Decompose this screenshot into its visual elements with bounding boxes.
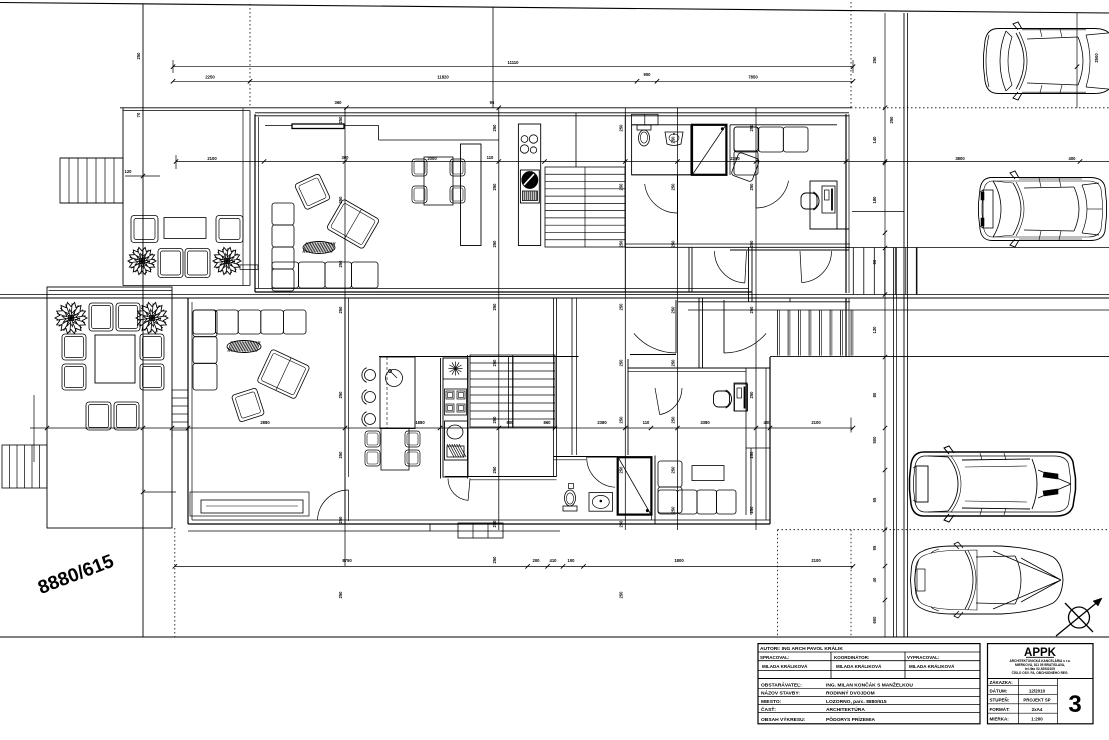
property line vertical x=143 [142, 4, 144, 637]
patio chair bottom 2 [114, 402, 139, 430]
site stairs treads [2, 445, 47, 488]
lower center wall x=627 [627, 359, 629, 455]
study top wall y=368 [628, 367, 770, 369]
upper plan top niche walls [265, 125, 379, 127]
site boundary top line (slanted) [0, 3, 1109, 14]
curb verticals x=893 [893, 248, 895, 638]
svg-text:1880: 1880 [415, 420, 425, 425]
upper hall door 2 [756, 181, 789, 208]
upper living armchair rotated 2 [326, 199, 379, 249]
upper wc shaft [632, 114, 658, 125]
patio dotted edge continuation [174, 528, 176, 637]
sidewalk line right [893, 309, 1109, 311]
left dim vertical x=34 [33, 395, 35, 462]
dimension chain y=163 upper plan [176, 161, 1109, 163]
dotted parking line y=530 [778, 529, 1109, 531]
svg-text:8750: 8750 [342, 558, 352, 563]
kitchen bottom wall [445, 476, 557, 478]
svg-text:140: 140 [872, 136, 877, 144]
svg-text:OBSAH VÝKRESU:: OBSAH VÝKRESU: [761, 716, 806, 723]
parking edge line y=211.5 [852, 211, 904, 213]
dimension line overall width y=67 [173, 66, 853, 68]
stairwell left wall lower [467, 355, 469, 479]
svg-text:410: 410 [550, 558, 558, 563]
svg-text:250: 250 [872, 56, 877, 64]
svg-text:600: 600 [872, 616, 877, 624]
svg-text:250: 250 [492, 466, 497, 474]
dim tick on property line y=492 [143, 491, 176, 493]
svg-text:MILADA KRÁLIKOVÁ: MILADA KRÁLIKOVÁ [762, 663, 808, 669]
svg-text:250: 250 [338, 260, 343, 268]
svg-text:MILADA KRÁLIKOVÁ: MILADA KRÁLIKOVÁ [909, 663, 955, 669]
svg-text:180: 180 [872, 196, 877, 204]
svg-text:250: 250 [671, 136, 676, 144]
lower plan outer walls [187, 298, 189, 524]
svg-text:MIERKA:: MIERKA: [990, 717, 1010, 722]
bedroom right wall inner [750, 448, 752, 515]
upper porch lines [678, 301, 850, 303]
svg-text:250: 250 [671, 359, 676, 367]
svg-text:2500: 2500 [1094, 53, 1099, 63]
dotted grid vertical x=851 top [850, 2, 852, 108]
patio chair bottom 1 [86, 402, 111, 430]
svg-text:250: 250 [749, 451, 754, 459]
dimension line segments y=81 [173, 80, 853, 82]
svg-text:900: 900 [644, 72, 652, 77]
svg-text:400: 400 [1069, 156, 1077, 161]
svg-text:STUPEŇ:: STUPEŇ: [990, 696, 1010, 703]
svg-text:360: 360 [335, 100, 343, 105]
svg-text:PROJEKT SP: PROJEKT SP [1023, 698, 1050, 703]
svg-text:250: 250 [492, 183, 497, 191]
svg-text:2380: 2380 [730, 156, 740, 161]
svg-text:40: 40 [872, 577, 877, 582]
road edge double vertical x=904 [903, 13, 905, 637]
terrace armchair 2 [216, 216, 243, 243]
svg-text:120: 120 [872, 326, 877, 334]
svg-text:70: 70 [136, 112, 141, 117]
svg-text:80: 80 [872, 392, 877, 397]
dimension chain y=428 lower plan [30, 427, 853, 429]
patio chair left 1 [62, 334, 86, 360]
svg-text:250: 250 [618, 591, 623, 599]
grid dotted vertical x=250 top [249, 4, 251, 108]
svg-text:12/2010: 12/2010 [1029, 689, 1046, 694]
grid vertical x=498.8 [498, 108, 500, 530]
dimension chain vertical x=885 [884, 13, 886, 637]
grid vertical x=345 [344, 108, 346, 566]
party wall upper plan [748, 247, 750, 302]
patio chair left 2 [62, 364, 86, 390]
upper hall door 1 [645, 184, 678, 213]
svg-text:DÁTUM:: DÁTUM: [990, 688, 1008, 694]
svg-text:250: 250 [338, 391, 343, 399]
car 2 [979, 171, 1107, 247]
svg-text:110: 110 [643, 420, 650, 425]
svg-text:2380: 2380 [597, 420, 607, 425]
terrace seat 2 [185, 249, 210, 278]
svg-text:250: 250 [492, 240, 497, 248]
lower desk [735, 384, 748, 411]
upper stairs treads [545, 167, 625, 247]
terrace seat 1 [158, 249, 183, 278]
party wall lower plan [698, 298, 700, 368]
upper dining table [424, 157, 453, 205]
long double site line y=295-298 [0, 294, 1109, 296]
upper desk set [810, 181, 837, 229]
lower island sink [386, 370, 403, 387]
svg-text:7850: 7850 [748, 75, 758, 80]
patio table [95, 335, 135, 383]
svg-text:250: 250 [671, 183, 676, 191]
upper kitchen island [461, 144, 482, 246]
svg-text:1:200: 1:200 [1031, 717, 1043, 722]
svg-text:250: 250 [671, 506, 676, 514]
car 4 sport [911, 542, 1064, 618]
grid vertical x=625 [624, 108, 626, 530]
lower dining set [381, 428, 409, 470]
patio seat top 2 [116, 303, 140, 331]
svg-text:250: 250 [618, 359, 623, 367]
terrace tree 1 [128, 247, 156, 274]
terrace inner edge x=243 [242, 108, 244, 286]
svg-text:250: 250 [492, 124, 497, 132]
upper living armchair rotated 1 [294, 173, 330, 210]
center hall door [660, 388, 682, 415]
exterior steps band A [846, 247, 1109, 249]
svg-text:300: 300 [342, 155, 350, 160]
car 1 body [984, 29, 1109, 94]
dotted grid vertical x=851 bottom [850, 530, 852, 637]
svg-text:200: 200 [533, 558, 541, 563]
patio chair right 2 [140, 364, 164, 390]
svg-text:RODINNÝ DVOJDOM: RODINNÝ DVOJDOM [826, 690, 875, 697]
svg-text:ARCHITEKTÚRA: ARCHITEKTÚRA [826, 706, 865, 713]
lower living armchairs rotated [257, 349, 310, 399]
north arrow symbol [1069, 607, 1090, 628]
svg-text:250: 250 [492, 416, 497, 424]
svg-text:250: 250 [749, 183, 754, 191]
dotted site line y=107 parking [851, 107, 1109, 109]
patio outline [47, 287, 172, 528]
title table row lines [758, 687, 980, 689]
upper living rug [303, 242, 335, 254]
svg-text:95: 95 [872, 545, 877, 550]
lower desk set [734, 383, 747, 411]
svg-text:250: 250 [671, 466, 676, 474]
svg-text:LOZORNO, parc. 8880/615: LOZORNO, parc. 8880/615 [826, 699, 887, 705]
upper plan partition x=625 lower [624, 244, 626, 292]
upper stairwell wall x=576 [575, 113, 577, 167]
terrace mid dim tick [125, 175, 160, 177]
bathroom door [587, 457, 615, 487]
upper interior wall mid [677, 175, 679, 244]
svg-text:FORMÁT:: FORMÁT: [990, 706, 1011, 712]
upper shower [692, 125, 726, 175]
svg-text:250: 250 [618, 124, 623, 132]
terrace coffee table [164, 218, 206, 239]
grid vertical x=677.5 [677, 108, 679, 530]
svg-text:250: 250 [492, 556, 497, 564]
lower entry door arc 2 [724, 333, 766, 353]
svg-text:MILADA KRÁLIKOVÁ: MILADA KRÁLIKOVÁ [836, 663, 882, 669]
svg-text:250: 250 [618, 303, 623, 311]
svg-text:250: 250 [338, 591, 343, 599]
svg-text:250: 250 [338, 196, 343, 204]
lower hall wall x=555 [553, 298, 555, 477]
svg-text:VYPRACOVAL:: VYPRACOVAL: [907, 655, 940, 660]
svg-text:11820: 11820 [437, 75, 449, 80]
upper entry door arc 2 [802, 251, 832, 283]
svg-text:3800: 3800 [955, 156, 965, 161]
patio chair right 1 [140, 334, 164, 360]
upper plan inner wall y=244 [625, 243, 850, 245]
svg-text:250: 250 [338, 306, 343, 314]
grid vertical x=493 top margin [492, 7, 494, 108]
lower living rug [227, 341, 261, 353]
fridge snowflake [443, 358, 468, 379]
upper wc sink [665, 132, 683, 146]
svg-text:NÁZOV STAVBY:: NÁZOV STAVBY: [761, 690, 800, 697]
lower stairs treads [470, 355, 555, 427]
lower plan right wall x=770 [769, 357, 771, 524]
svg-text:ZÁKAZKA:: ZÁKAZKA: [990, 679, 1014, 685]
lower bathroom walls [554, 456, 618, 458]
svg-text:2xA4: 2xA4 [1032, 707, 1043, 712]
svg-text:55: 55 [872, 497, 877, 502]
kitchen top wall [379, 356, 579, 358]
svg-text:KOORDINÁTOR:: KOORDINÁTOR: [834, 654, 870, 660]
car 4 body [911, 546, 1064, 614]
patio seat top 1 [89, 303, 113, 331]
svg-text:MIESTO:: MIESTO: [761, 699, 782, 705]
terrace tree 2 [213, 247, 241, 274]
svg-text:2100: 2100 [811, 558, 821, 563]
study right wall [745, 368, 747, 515]
lower kitchen island [380, 357, 415, 429]
svg-text:3380: 3380 [700, 420, 710, 425]
lower bath sink [589, 493, 613, 512]
lower bedroom table [692, 466, 724, 481]
terrace step lines [60, 157, 123, 159]
grid vertical x=756 [755, 108, 757, 530]
site line y=107 long horizontal [120, 107, 851, 109]
lower tv board [190, 492, 309, 516]
svg-text:250: 250 [671, 416, 676, 424]
svg-text:95: 95 [490, 100, 495, 105]
bottom site line y=637 [0, 636, 1109, 638]
lower entry door arc 1 [634, 333, 676, 353]
svg-text:250: 250 [338, 451, 343, 459]
upper bedroom sofa L [734, 127, 759, 152]
svg-text:2250: 2250 [205, 75, 215, 80]
upper bedroom walls [730, 124, 837, 126]
lower toilet [563, 506, 577, 511]
svg-text:SPRACOVAL:: SPRACOVAL: [760, 655, 790, 660]
dimension chain y=566 bottom [175, 565, 853, 567]
svg-text:11110: 11110 [508, 60, 520, 65]
lower living sofa L [193, 310, 216, 334]
svg-text:2100: 2100 [811, 420, 821, 425]
lower kitchen sink [445, 421, 468, 460]
dim ticks on y=107 line [344, 106, 348, 110]
kitchen left wall [440, 358, 442, 479]
svg-text:3: 3 [1068, 691, 1081, 718]
upper kitchen oven appliance [520, 170, 539, 203]
svg-text:2100: 2100 [207, 156, 217, 161]
svg-text:AUTORI: ING ARCH PAVOL KRÁLIK: AUTORI: ING ARCH PAVOL KRÁLIK [760, 645, 843, 652]
upper wc toilet [637, 125, 651, 130]
living room door to kitchen [318, 490, 349, 520]
left exterior steps strip [172, 389, 188, 391]
svg-text:250: 250 [338, 116, 343, 124]
terrace step rect [240, 265, 258, 270]
bar stools [365, 370, 376, 381]
exterior steps band B lower [688, 309, 851, 311]
upper hall walls [624, 116, 626, 248]
title block left table [758, 644, 980, 724]
svg-text:250: 250 [749, 506, 754, 514]
svg-text:100: 100 [568, 558, 576, 563]
upper terrace outline [122, 108, 124, 286]
svg-text:1800: 1800 [674, 558, 684, 563]
car 3 body [910, 452, 1076, 516]
upper plan outer walls [255, 112, 849, 114]
title block right box [988, 644, 1094, 724]
upper bedroom lower wall [811, 228, 849, 230]
vestibule wall upper plan [688, 247, 690, 292]
svg-text:250: 250 [618, 416, 623, 424]
car 3 suv [910, 446, 1076, 522]
svg-text:250: 250 [618, 183, 623, 191]
svg-text:OBSTARÁVATEĽ:: OBSTARÁVATEĽ: [761, 682, 802, 689]
upper kitchen counter [518, 124, 540, 246]
hall door below kitchen [448, 479, 468, 501]
right top dim vertical x=1077 [1076, 13, 1078, 108]
lower living room right wall [344, 298, 346, 524]
svg-text:250: 250 [618, 466, 623, 474]
svg-text:2880: 2880 [260, 420, 270, 425]
lower bedroom sofa [658, 461, 682, 487]
upper desk [822, 186, 835, 213]
svg-text:860: 860 [544, 420, 552, 425]
svg-text:250: 250 [492, 303, 497, 311]
dotted corner vertical x=777.5 [777, 530, 779, 637]
lower stairs rail [508, 357, 510, 429]
toilet cistern button [569, 484, 574, 489]
car 2 body [979, 178, 1107, 241]
patio tree 2 [136, 302, 168, 333]
patio tree 1 [55, 302, 87, 333]
upper wc room [632, 125, 691, 175]
upper living room sofa [272, 203, 294, 225]
svg-text:250: 250 [749, 391, 754, 399]
car 1 [984, 22, 1109, 100]
svg-text:500: 500 [872, 436, 877, 444]
svg-text:250: 250 [136, 52, 141, 60]
center room top wall [630, 354, 676, 356]
lower kitchen counter [443, 358, 468, 477]
lower plan bottom step [188, 530, 560, 532]
svg-text:250: 250 [889, 116, 894, 124]
lower shower [618, 457, 652, 514]
right table lines [988, 678, 1094, 680]
svg-text:120: 120 [125, 169, 133, 174]
lower stove burners [445, 389, 467, 415]
upper stove burners [521, 136, 528, 143]
svg-text:250: 250 [671, 306, 676, 314]
terrace stairs treads [60, 158, 123, 203]
svg-text:250: 250 [618, 240, 623, 248]
upper entry door arc 1 [714, 251, 744, 283]
svg-text:110: 110 [487, 155, 494, 160]
terrace armchair 1 [131, 216, 158, 243]
svg-text:ČÍSLO OSV. FA, OBCHODNÉHO REG.: ČÍSLO OSV. FA, OBCHODNÉHO REG. [1012, 670, 1069, 675]
